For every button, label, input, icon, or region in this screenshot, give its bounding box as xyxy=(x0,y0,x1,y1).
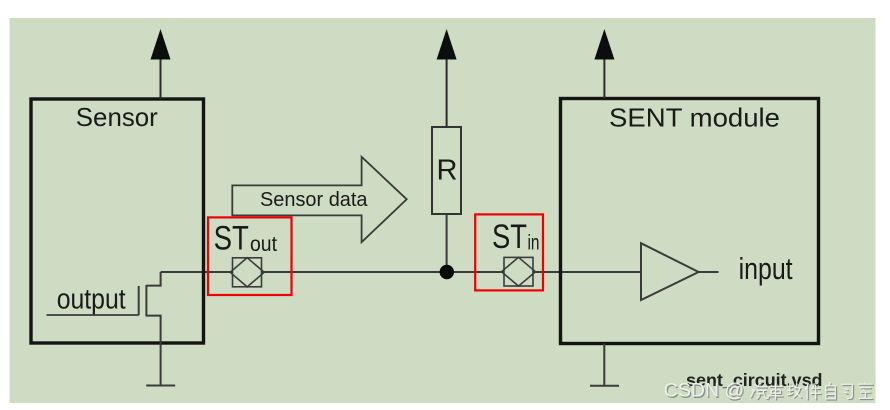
svg-text:SENT module: SENT module xyxy=(609,103,780,133)
svg-text:output: output xyxy=(57,284,126,316)
block arrow Sensor data xyxy=(232,157,406,242)
power arrow middle supply xyxy=(437,29,457,60)
highlight box ST_out xyxy=(208,217,292,295)
suppressor ST_in square xyxy=(504,257,533,286)
svg-text:out: out xyxy=(250,233,277,256)
wire: main signal net at y=272 from sensor output to buffer xyxy=(161,271,641,273)
wire: buffer output stub to input label xyxy=(699,271,719,273)
ground SENT module xyxy=(590,385,619,387)
resistor R pull-up body xyxy=(432,127,461,214)
watermark shadow copy xyxy=(664,380,874,403)
transistor Q1 gate bar xyxy=(138,286,140,315)
ground sensor xyxy=(146,385,175,387)
box: Sensor block xyxy=(31,99,204,343)
box: SENT module block xyxy=(561,99,819,344)
wire: middle supply above resistor xyxy=(446,58,448,127)
svg-text:ST: ST xyxy=(492,218,527,256)
svg-text:input: input xyxy=(739,251,793,286)
wire: left supply from Sensor box top xyxy=(160,58,162,99)
wire: output underline to gate xyxy=(47,314,139,316)
suppressor ST_in diamond xyxy=(502,257,536,286)
power arrow left supply xyxy=(151,29,171,60)
power arrow right supply xyxy=(594,29,614,60)
suppressor ST_out diamond xyxy=(230,258,264,287)
transistor Q1 channel bar xyxy=(145,285,147,316)
svg-text:Sensor data: Sensor data xyxy=(260,189,368,211)
wire: right supply from SENT box top xyxy=(603,58,605,99)
highlight box ST_in xyxy=(475,214,543,290)
buffer amplifier triangle U1 xyxy=(641,243,699,300)
wire: resistor bottom to node xyxy=(446,214,448,272)
svg-text:Sensor: Sensor xyxy=(76,102,158,132)
svg-text:ST: ST xyxy=(214,220,249,258)
wire: transistor source jog down xyxy=(146,316,160,343)
svg-text:in: in xyxy=(528,232,540,255)
wire: transistor drain jog to main net xyxy=(146,272,160,286)
suppressor ST_out square xyxy=(233,258,262,287)
wire: SENT module ground lead xyxy=(603,344,605,386)
node junction dot xyxy=(440,265,454,279)
wire: sensor ground lead xyxy=(160,343,162,386)
svg-text:R: R xyxy=(437,155,458,187)
